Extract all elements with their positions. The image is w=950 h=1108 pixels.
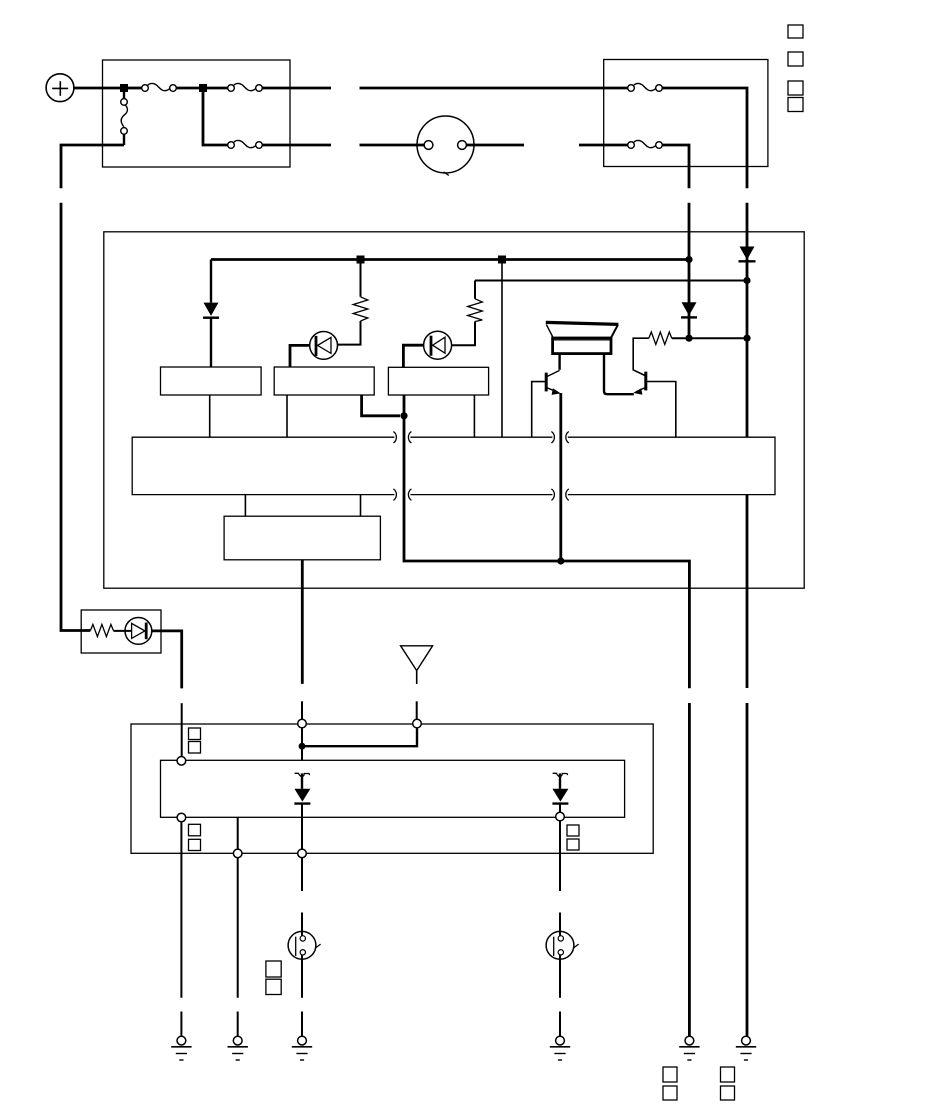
keyless wire bar to ground trunk <box>746 495 749 688</box>
wire F6 corner down <box>662 145 689 188</box>
wire F3 to connector break <box>262 144 331 147</box>
bus wire y259 <box>211 258 689 261</box>
buzzer BZ1 <box>546 322 619 353</box>
bar break curl seg1 top <box>393 432 396 444</box>
junction node A <box>120 84 128 92</box>
ground G5 <box>679 1036 699 1060</box>
photocoupler PC2 <box>424 331 452 359</box>
node H dot <box>400 412 407 419</box>
connector code squares top right <box>788 25 803 112</box>
ground code squares pair B <box>721 1067 735 1100</box>
Q1 emitter trunk <box>559 393 562 561</box>
wire SW3 to ground <box>559 955 561 998</box>
main feed down to indicator unit <box>61 203 90 631</box>
node dot hot-337 <box>743 335 750 342</box>
pin K2 left <box>286 395 288 437</box>
wire pin to antenna node <box>301 728 303 761</box>
junction square D <box>498 256 506 264</box>
diode D5 <box>552 773 568 891</box>
keyless trunk below connector <box>746 703 749 1036</box>
pin node D down <box>501 264 503 438</box>
trunk below connector to ground <box>688 703 691 1036</box>
relay block K2 <box>274 367 374 395</box>
buzzer leads <box>558 354 560 370</box>
wire F2 to connector break <box>262 87 331 90</box>
bar break curl seg2 top right <box>551 432 554 444</box>
fuse F3 <box>228 140 263 148</box>
ground code squares pair A <box>663 1067 677 1100</box>
junction square C <box>357 256 365 264</box>
wire receiver mid pin down <box>237 817 239 998</box>
node dot I <box>557 557 564 564</box>
node dot E <box>685 256 692 263</box>
ground G4 <box>550 1036 570 1060</box>
Q1 base <box>532 382 546 438</box>
pin circle top antenna <box>413 719 422 728</box>
wire mid pin to ground <box>237 1012 239 1037</box>
wire R4 to LED <box>113 630 131 632</box>
pin K3 right <box>473 395 475 437</box>
pin oscillator left <box>244 495 246 517</box>
diode D4 <box>294 773 310 891</box>
wire K2 to node H <box>362 395 400 416</box>
diode D2 <box>681 302 697 317</box>
hot wire down to control unit <box>746 203 749 438</box>
antenna jumper <box>302 728 417 746</box>
connector bar middle segment <box>410 437 552 494</box>
resistor R2 <box>468 281 483 322</box>
antenna lead <box>416 701 418 719</box>
connector bar left segment <box>132 437 394 494</box>
wire R2 to photocoupler PC2 <box>452 322 475 346</box>
relay block K3 <box>388 367 488 395</box>
diode D1 <box>739 247 756 262</box>
wire F to G <box>689 337 747 339</box>
pin circle inner top left <box>177 757 186 766</box>
wire connector to fuse box 2 row 2 <box>579 144 628 147</box>
wire SW2 to ground <box>301 955 303 998</box>
signal trunk down and across <box>404 395 689 688</box>
wire connector to ignition switch <box>360 144 425 147</box>
bar break curl seg3 bottom <box>566 489 569 501</box>
wire node A to fuse F1 <box>128 87 142 90</box>
receiver connector squares right <box>567 825 579 850</box>
transistor Q2 <box>633 338 649 395</box>
photocoupler PC1 <box>310 332 338 360</box>
wire F1 to node B <box>176 87 199 90</box>
oscillator block <box>224 516 380 560</box>
receiver connector squares lower left <box>189 824 201 850</box>
wire battery to fuse box <box>74 87 120 90</box>
receiver unit box <box>131 724 653 853</box>
connector bar right segment <box>568 437 775 494</box>
transistor Q1 <box>546 370 561 395</box>
resistor R4 <box>90 624 113 636</box>
antenna <box>401 646 433 684</box>
wire to switch SW2 <box>301 913 303 936</box>
wire R1 to photocoupler PC1 <box>338 321 361 345</box>
pin oscillator right <box>360 495 362 517</box>
relay block K1 <box>161 367 262 395</box>
connector squares below SW2 <box>266 961 281 995</box>
fuse box 2 <box>604 60 768 167</box>
wire F5 to left feed down <box>61 145 124 188</box>
wire F4 right corner down <box>662 88 747 188</box>
pin circle outer bottom osc <box>298 849 307 858</box>
wire node B to fuse F2 <box>207 87 228 90</box>
door switch SW2 <box>288 931 321 959</box>
fuse F6 in box 2 row 2 <box>628 140 663 148</box>
bar break curl seg2 top left <box>408 432 411 444</box>
wire oscillator down <box>301 560 304 684</box>
fuse box 1 <box>103 60 291 167</box>
node dot F <box>685 335 692 342</box>
ground G6 <box>736 1036 756 1060</box>
ignition wire down into control unit <box>688 203 691 339</box>
ignition switch SW1 <box>417 116 474 175</box>
bar break curl seg2 bottom left <box>408 489 411 501</box>
wire PC2 to relay K3 <box>403 345 423 367</box>
bar break curl seg1 bottom <box>393 489 396 501</box>
fuse F5 vertical <box>121 92 128 145</box>
pin circle inner bottom left <box>177 813 186 822</box>
ground G1 <box>171 1036 191 1060</box>
wire PC1 to relay K2 <box>290 345 310 367</box>
switch SW3 <box>546 931 579 959</box>
ground G2 <box>228 1036 248 1060</box>
wire node B down to row 2 <box>203 92 228 145</box>
junction node B <box>199 84 207 92</box>
fuse F2 <box>228 83 263 91</box>
pin K1 <box>209 395 211 437</box>
battery B1 <box>46 74 74 102</box>
wire to switch SW3 <box>559 913 561 936</box>
fuse F4 in box 2 row 1 <box>628 83 663 91</box>
wire indicator to receiver <box>181 703 183 756</box>
wire SW1 to connector break <box>466 144 524 147</box>
antenna node dot <box>299 743 306 750</box>
security control unit box <box>104 232 804 588</box>
resistor R3 <box>649 332 689 345</box>
pin circle top osc <box>298 719 307 728</box>
wire receiver left pin down <box>180 822 182 998</box>
indicator LED <box>125 618 152 645</box>
pin circle outer bottom mid <box>233 849 242 858</box>
fuse F1 <box>142 83 177 91</box>
wire LED out <box>152 631 182 689</box>
bar break curl seg3 top <box>566 432 569 444</box>
diode D3 branch <box>203 260 219 368</box>
wire oscillator to receiver pin <box>301 701 303 719</box>
wire y280 <box>475 280 747 282</box>
wire left pin to ground <box>180 1012 182 1037</box>
wire connector to fuse box 2 <box>360 87 628 90</box>
ground G3 <box>292 1036 312 1060</box>
resistor R1 <box>353 264 368 322</box>
security indicator unit box <box>81 610 161 653</box>
pin circle inner bottom right <box>556 812 565 821</box>
receiver inner module box <box>161 760 625 817</box>
node dot hot-280 <box>743 277 750 284</box>
bar break curl seg2 bottom right <box>551 489 554 501</box>
receiver connector squares upper left <box>189 728 201 753</box>
Q2 base <box>646 382 676 438</box>
